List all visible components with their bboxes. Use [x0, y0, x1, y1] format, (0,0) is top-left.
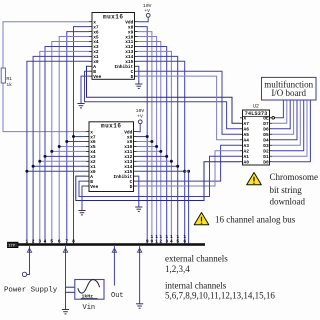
svg-text:Vin: Vin [83, 304, 96, 312]
svg-text:1: 1 [26, 238, 29, 244]
svg-text:7: 7 [65, 238, 68, 244]
svg-text:X: X [244, 116, 247, 122]
svg-text:16 channel analog bus: 16 channel analog bus [215, 215, 296, 225]
svg-text:D5: D5 [263, 132, 269, 138]
svg-text:A2: A2 [244, 148, 250, 154]
svg-text:0: 0 [151, 238, 154, 244]
svg-text:Chromosome: Chromosome [270, 172, 319, 182]
svg-text:A5: A5 [244, 132, 250, 138]
svg-text:D6: D6 [263, 126, 269, 132]
svg-text:10V: 10V [143, 3, 152, 9]
svg-text:D: D [130, 184, 133, 190]
svg-text:+V: +V [144, 8, 150, 14]
svg-text:internal channels: internal channels [165, 281, 227, 291]
svg-text:I/O board: I/O board [271, 88, 306, 98]
svg-text:4: 4 [170, 238, 173, 244]
svg-text:A6: A6 [244, 126, 250, 132]
svg-text:R1: R1 [6, 76, 12, 82]
svg-text:1,2,3,4: 1,2,3,4 [165, 264, 190, 274]
svg-text:5: 5 [176, 238, 179, 244]
svg-text:ITP: ITP [9, 245, 15, 249]
svg-text:A3: A3 [244, 143, 250, 149]
svg-text:OE: OE [263, 116, 269, 122]
svg-text:Vee: Vee [90, 184, 98, 190]
svg-text:D: D [131, 74, 134, 80]
svg-text:A4: A4 [244, 137, 250, 143]
svg-text:1: 1 [155, 238, 158, 244]
svg-text:9: 9 [146, 238, 149, 244]
svg-text:3: 3 [38, 238, 41, 244]
svg-text:mux16: mux16 [103, 13, 124, 20]
svg-text:D2: D2 [263, 148, 269, 154]
svg-text:1k: 1k [6, 82, 12, 88]
svg-text:bit string: bit string [270, 185, 303, 195]
svg-text:A7: A7 [244, 121, 250, 127]
svg-text:5,6,7,8,9,10,11,12,13,14,15,16: 5,6,7,8,9,10,11,12,13,14,15,16 [165, 291, 275, 301]
svg-text:D0: D0 [263, 159, 269, 165]
svg-text:download: download [270, 197, 306, 207]
svg-text:2: 2 [32, 238, 35, 244]
svg-text:A1: A1 [244, 154, 250, 160]
svg-text:8: 8 [72, 238, 75, 244]
svg-text:+V: +V [137, 113, 143, 119]
svg-text:U2: U2 [253, 103, 259, 109]
svg-text:D4: D4 [263, 137, 269, 143]
svg-text:Vee: Vee [93, 74, 101, 80]
svg-text:Power Supply: Power Supply [4, 287, 58, 295]
svg-text:4: 4 [44, 238, 47, 244]
svg-text:Out: Out [111, 292, 124, 300]
svg-text:3: 3 [165, 238, 168, 244]
svg-text:6: 6 [58, 238, 61, 244]
svg-text:2: 2 [159, 238, 162, 244]
svg-text:5: 5 [50, 238, 53, 244]
svg-text:external channels: external channels [165, 254, 228, 264]
svg-text:10V: 10V [136, 108, 145, 114]
svg-text:D1: D1 [263, 154, 269, 160]
svg-text:D3: D3 [263, 143, 269, 149]
svg-text:mux16: mux16 [101, 123, 122, 130]
svg-text:6: 6 [183, 238, 186, 244]
svg-text:A0: A0 [244, 159, 250, 165]
svg-text:D7: D7 [263, 121, 269, 127]
